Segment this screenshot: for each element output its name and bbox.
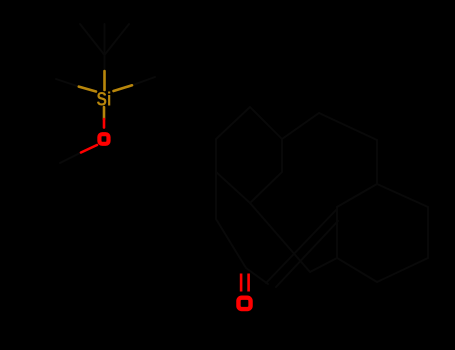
wire: upper link from ring A to ring B [282, 113, 377, 184]
wire: bridge to ring B [310, 258, 337, 272]
ring B hexagon [337, 184, 428, 282]
wire: Si left bond [79, 87, 96, 92]
ketone C=O double bond (red) [241, 274, 249, 292]
wire: methoxy methyl dark part [60, 153, 81, 164]
wire: Si-O bond upper half [103, 107, 106, 119]
svg-text:Si: Si [97, 89, 112, 110]
oxygen atom label O (silyl ether) [99, 134, 108, 144]
right-hand ketone skeleton (faint dark) [216, 107, 428, 287]
ring A hexagon [216, 107, 282, 203]
silicon Si bonds (gold) [79, 71, 132, 119]
wire: left Si-methyl dark part [56, 79, 79, 87]
wire: Si right bond [114, 85, 133, 91]
wire: left chain from ring A down to carbonyl C [216, 172, 246, 268]
tert-butyl group on Si (faint dark skeleton) [56, 24, 155, 163]
wire: t-Bu methyl upper-right [105, 24, 130, 55]
wire: Si-O bond lower half (red) [103, 119, 106, 128]
wire: carbonyl C to alpha CH2 [246, 268, 268, 284]
wire: Si up bond [103, 71, 106, 90]
wire: t-Bu methyl upper-left [80, 24, 105, 55]
wire: O-CH3 bond red part [81, 145, 97, 153]
oxygen atom label O (ketone) [238, 298, 250, 309]
wire: right Si-methyl dark part [132, 77, 155, 85]
wire: C=C double bond main line [266, 209, 337, 283]
wire: C=C double bond inner line [276, 221, 338, 287]
wire: bridge bond from ring A bottom [250, 203, 310, 272]
wire: t-Bu vertical methyl [104, 24, 106, 71]
